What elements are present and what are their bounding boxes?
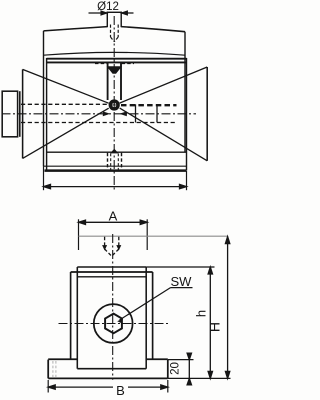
h dimension line xyxy=(208,267,212,378)
dimension Ø12 label xyxy=(97,1,119,13)
front view vertical centerline xyxy=(112,234,114,380)
body top edge double line xyxy=(47,59,187,63)
X diagonal from left-bottom jaw corner to center circle xyxy=(23,108,109,158)
h top extension line xyxy=(146,266,214,268)
base top extension line for 20 dim xyxy=(168,359,194,361)
svg-text:H: H xyxy=(206,322,222,332)
body bottom thin line xyxy=(44,165,187,167)
hidden hole arrowheads xyxy=(102,245,121,250)
lid right edge xyxy=(184,32,186,153)
dimension Ø12 lines and arrows xyxy=(89,11,134,15)
body bottom thick edge xyxy=(45,169,187,172)
hex socket xyxy=(105,314,122,334)
movable jaw edge line xyxy=(47,151,187,153)
X diagonal from left-top jaw corner to center circle xyxy=(23,69,109,103)
svg-text:20: 20 xyxy=(170,362,182,375)
cone tip above bottom box (hidden hole from below) xyxy=(110,149,118,154)
B dimension line with arrows xyxy=(48,385,168,389)
right extension line of bottom dimension xyxy=(186,171,188,190)
20 dimension line with outside arrows xyxy=(187,353,191,385)
faint slot hidden lines in base left wing xyxy=(53,361,56,377)
hidden bore dashed lines xyxy=(21,104,177,122)
svg-text:A: A xyxy=(109,209,118,224)
lid top arc xyxy=(44,27,186,32)
faint extension line to H dimension xyxy=(79,235,228,237)
pin boss top (solid outline above arc) xyxy=(107,12,122,28)
hidden hole in pin (dashed) with cone point xyxy=(111,25,119,42)
svg-text:Ø12: Ø12 xyxy=(97,1,119,13)
boss plate (inner) on top of block xyxy=(77,267,146,369)
axis arrows at center circle xyxy=(103,111,127,116)
hidden pin hole (dashed) in front view xyxy=(105,237,119,256)
B extension lines xyxy=(48,380,168,393)
block outline xyxy=(71,272,153,369)
inner liner top line xyxy=(77,276,146,278)
left small box (screw end) xyxy=(2,91,20,137)
base plate xyxy=(48,359,168,378)
bottom hidden box (dashed) xyxy=(108,153,122,170)
horizontal axis centerline xyxy=(2,113,197,115)
thread core dashed lines in bottom box xyxy=(111,154,119,170)
heavy dashed bore segment right of circle xyxy=(121,104,177,106)
X diagonal from right-top jaw corner to center circle xyxy=(120,67,208,103)
dashes beside shoulder xyxy=(95,63,134,65)
bore step verticals xyxy=(136,104,158,122)
svg-text:h: h xyxy=(194,310,209,317)
screw head circle xyxy=(94,304,133,343)
center circle (pin end) xyxy=(110,101,118,109)
body right edge xyxy=(186,58,188,171)
svg-text:SW: SW xyxy=(171,274,193,289)
right trapezoid jaw edge xyxy=(206,67,208,161)
left trapezoid jaw edge xyxy=(22,69,24,158)
svg-text:B: B xyxy=(116,383,125,398)
body left edge xyxy=(46,58,48,171)
SW leader line with arrow xyxy=(120,288,171,320)
lid left edge xyxy=(43,31,45,166)
center pin cylinder xyxy=(108,62,121,100)
left extension line tail xyxy=(43,166,45,190)
vertical centerline of top view xyxy=(113,16,115,190)
lid front thin arc line xyxy=(44,52,186,55)
A extension stubs xyxy=(79,219,148,250)
circle center cross xyxy=(109,100,119,110)
X diagonal from right-bottom jaw corner to center circle xyxy=(120,108,208,161)
front view horizontal centerline xyxy=(59,323,170,325)
bottom width dimension line with arrows xyxy=(44,184,187,188)
base bottom extension line xyxy=(168,377,231,379)
dimension A line with arrows + H extension xyxy=(79,220,148,224)
pin shoulder dark cone (hidden hole tip pointing down) xyxy=(107,66,122,74)
H dimension line xyxy=(225,237,229,379)
